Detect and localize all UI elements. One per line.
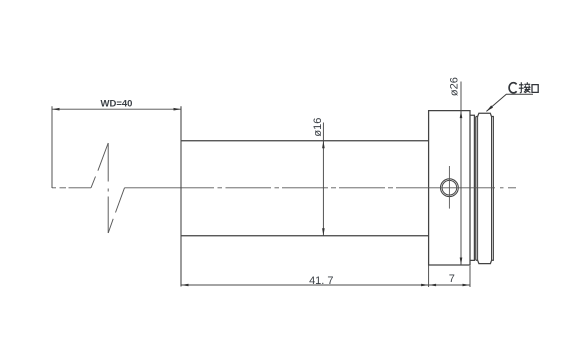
flange body outline [429, 111, 470, 265]
lens tube body outline [181, 141, 429, 236]
7 arrowheads [429, 284, 470, 287]
break symbol upper diagonal [91, 143, 108, 188]
41.7 dimension line [181, 284, 429, 286]
WD=40 arrowheads [52, 108, 181, 111]
svg-text:WD=40: WD=40 [101, 98, 133, 109]
hole vertical centerline [448, 166, 450, 209]
7 dim extension line below flange right [469, 266, 471, 287]
svg-text:7: 7 [449, 273, 455, 285]
C-mount ring groove [470, 115, 474, 260]
svg-text:ø26: ø26 [449, 77, 461, 96]
C-mount label: letter C [509, 83, 517, 93]
dia16 dimension line [322, 123, 324, 236]
dia26 dimension line [460, 82, 462, 266]
C-mount label: glyph jie (接) [519, 82, 531, 93]
svg-text:41. 7: 41. 7 [309, 275, 333, 287]
WD=40 extension line right / tube left edge [180, 106, 182, 286]
WD=40 extension line left [51, 106, 53, 188]
flange left edge extension to dim line [428, 265, 430, 287]
WD=40 dimension line [52, 108, 181, 110]
break symbol vertical [107, 143, 109, 233]
break symbol lower diagonal [108, 188, 124, 233]
41.7 arrowheads [181, 284, 429, 287]
dia26 arrowheads [460, 111, 463, 265]
dia16 arrowheads [322, 141, 325, 236]
thread minor-diameter lines [478, 117, 492, 261]
svg-text:ø16: ø16 [312, 118, 324, 137]
set screw hole circle on flange [441, 179, 459, 197]
C-mount label: glyph kou (口) [532, 85, 538, 93]
C-mount thread collar outline [476, 113, 494, 263]
main horizontal centerline (right of break) [125, 187, 517, 189]
C-mount leader line [486, 94, 533, 111]
main horizontal centerline (left of break) [52, 187, 91, 189]
C-mount leader arrowhead [486, 105, 493, 111]
7 dimension line [429, 284, 470, 286]
